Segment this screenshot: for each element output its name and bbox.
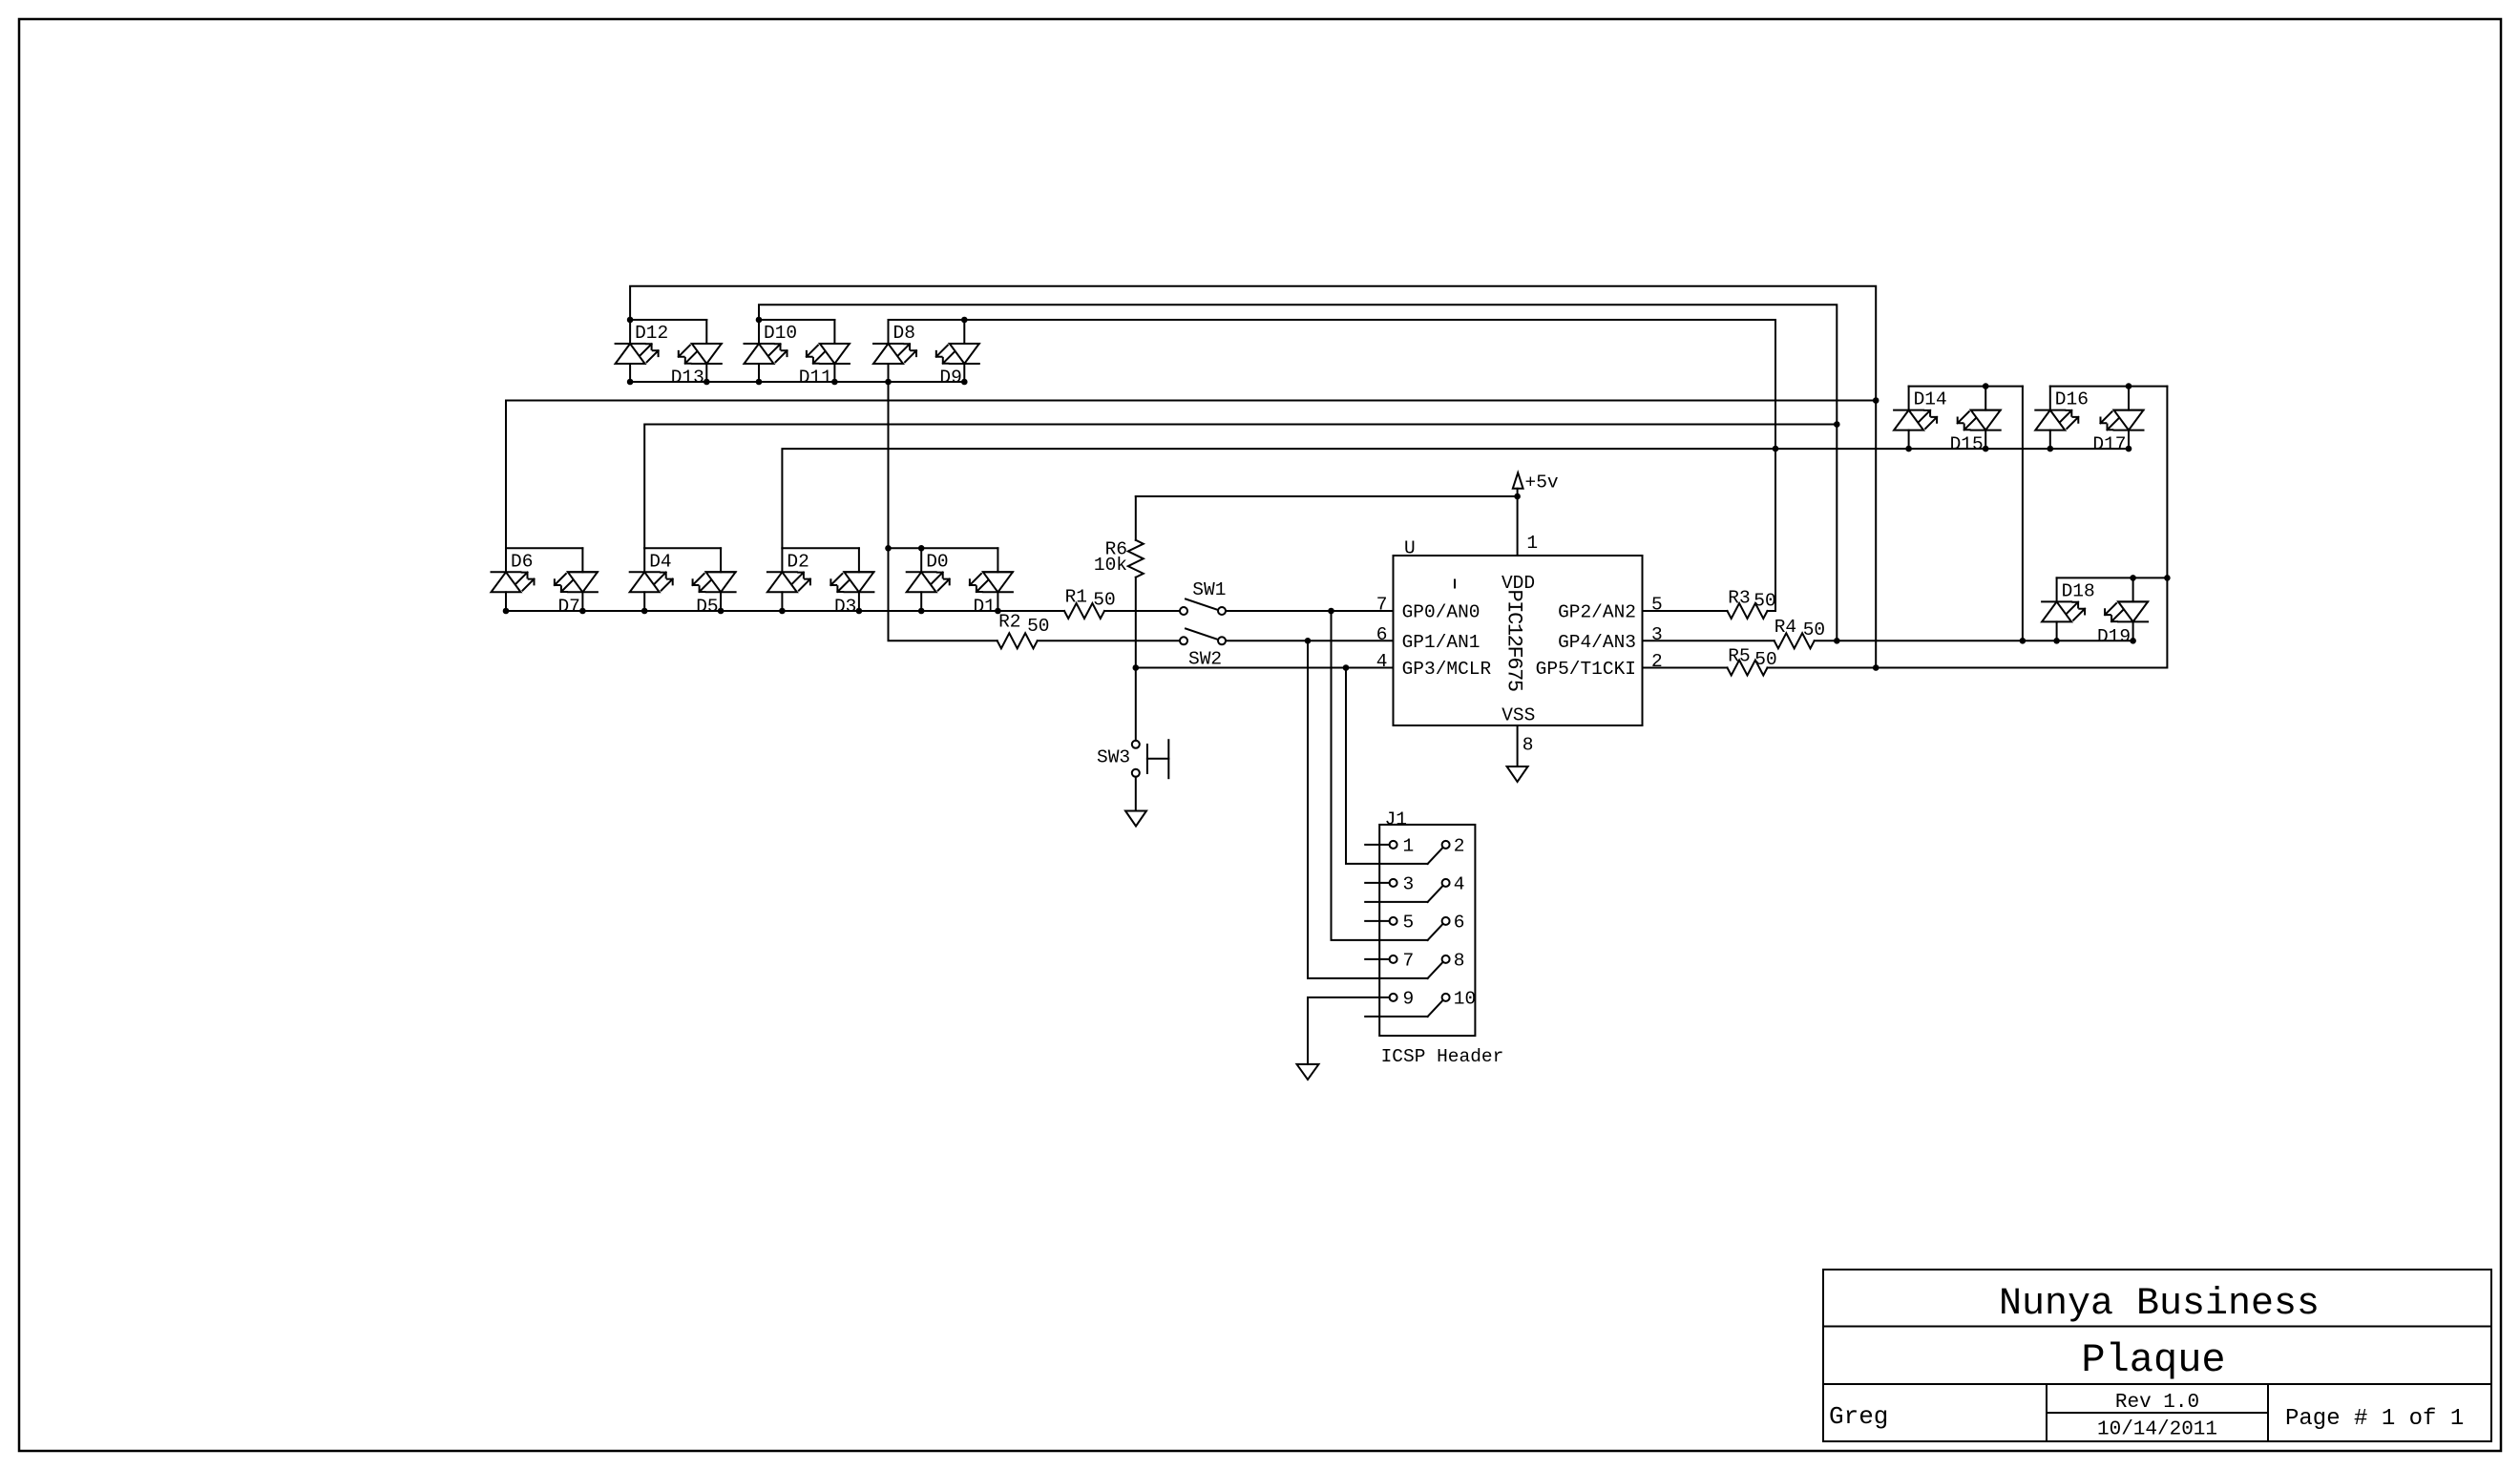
svg-text:GP0/AN0: GP0/AN0: [1402, 602, 1480, 623]
wire VSS pin 8 to ground: [1517, 725, 1519, 766]
ground (ICSP pin 9): [1297, 1064, 1319, 1080]
svg-text:SW3: SW3: [1097, 747, 1130, 768]
svg-text:D4: D4: [649, 551, 671, 572]
svg-text:J1: J1: [1385, 809, 1407, 830]
svg-text:U: U: [1404, 538, 1416, 559]
svg-text:4: 4: [1454, 873, 1465, 894]
wire ICSP pin 4 stub: [1365, 901, 1427, 903]
svg-text:50: 50: [1803, 619, 1825, 640]
resistor R2 50: [997, 611, 1050, 648]
svg-text:1: 1: [1403, 835, 1415, 856]
LED D12: [616, 320, 669, 382]
wire R3 lead from chip pin 5: [1643, 610, 1728, 612]
LED D19: [2097, 577, 2148, 646]
svg-text:D9: D9: [939, 367, 961, 388]
connector J1 ICSP Header: [1379, 809, 1503, 1068]
resistor R1 50: [1064, 586, 1116, 619]
wire GP4 net: D4 top riser and horizontal: [644, 425, 1837, 549]
svg-text:D5: D5: [696, 597, 718, 618]
LED D3: [830, 548, 873, 617]
svg-text:9: 9: [1403, 988, 1415, 1009]
svg-text:5: 5: [1651, 595, 1663, 616]
svg-text:D13: D13: [671, 367, 704, 388]
svg-text:10k: 10k: [1094, 555, 1127, 576]
svg-text:D10: D10: [764, 323, 797, 344]
LED D17: [2092, 387, 2143, 455]
svg-text:GP3/MCLR: GP3/MCLR: [1402, 659, 1492, 680]
J1 pin 8: [1428, 950, 1465, 978]
LED D5: [693, 548, 736, 617]
svg-text:GP5/T1CKI: GP5/T1CKI: [1536, 659, 1636, 680]
svg-text:50: 50: [1093, 590, 1115, 611]
power +5v symbol: [1513, 472, 1559, 493]
svg-text:D17: D17: [2092, 434, 2126, 455]
svg-text:VSS: VSS: [1501, 705, 1535, 726]
svg-text:Plaque: Plaque: [2081, 1337, 2225, 1383]
svg-text:2: 2: [1651, 651, 1663, 672]
svg-text:Nunya Business: Nunya Business: [1999, 1283, 2320, 1326]
LED D6: [492, 548, 535, 611]
wire GP5 net: D6 top riser and horizontal to right vertical: [506, 401, 1876, 549]
svg-text:50: 50: [1753, 591, 1775, 612]
svg-text:D7: D7: [557, 597, 579, 618]
J1 pin 10: [1428, 988, 1477, 1017]
wire GP3 net: row to chip pin 4: [1136, 667, 1394, 669]
J1 pin 3: [1390, 873, 1415, 894]
svg-text:Page # 1 of 1: Page # 1 of 1: [2285, 1406, 2464, 1432]
LED D2: [767, 548, 810, 611]
svg-text:ICSP Header: ICSP Header: [1381, 1046, 1504, 1067]
wire GP4 net: D14/D15 top rail: [1909, 386, 2023, 388]
wire GP4 net: D10 top riser, wire, vertical to R4 row: [759, 304, 1837, 640]
svg-text:4: 4: [1376, 651, 1388, 672]
wire GP0 net: R1 to SW1 left contact: [1104, 610, 1180, 612]
wire GP1 net: R2 to SW2 left contact: [1038, 640, 1180, 641]
svg-text:GP1/AN1: GP1/AN1: [1402, 632, 1480, 653]
svg-text:R4: R4: [1774, 617, 1796, 638]
wire GP0 net: branch down to ICSP pin 6: [1332, 611, 1428, 940]
J1 pin 2: [1428, 835, 1465, 864]
LED D15: [1950, 387, 2001, 455]
svg-text:2: 2: [1454, 835, 1465, 856]
wire GP1 net: SW2 right contact to chip pin 6: [1226, 640, 1394, 641]
svg-text:7: 7: [1376, 595, 1388, 616]
svg-text:Rev 1.0: Rev 1.0: [2115, 1392, 2199, 1414]
svg-text:7: 7: [1403, 950, 1415, 971]
resistor R4 50: [1774, 617, 1825, 648]
J1 pin 9: [1390, 988, 1415, 1009]
svg-text:R5: R5: [1728, 645, 1750, 666]
LED D9: [936, 320, 979, 388]
wire GP5 net: R5 row from resistor to corner, up right side: [1768, 387, 2168, 668]
LED D13: [671, 320, 722, 388]
switch SW1: [1180, 579, 1226, 615]
svg-text:D1: D1: [973, 597, 995, 618]
wire GP3 net: branch down to ICSP pin 2: [1346, 668, 1428, 864]
wire ICSP pin 3 stub: [1365, 882, 1389, 884]
svg-text:5: 5: [1403, 912, 1415, 933]
LED D18: [2042, 577, 2095, 640]
svg-text:6: 6: [1454, 912, 1465, 933]
junction dots: [503, 317, 2171, 671]
wire D6/D7 pair top rail: [506, 547, 582, 549]
title block: [1823, 1270, 2491, 1441]
svg-text:+5v: +5v: [1525, 472, 1559, 493]
svg-text:D16: D16: [2055, 389, 2089, 410]
svg-text:10/14/2011: 10/14/2011: [2097, 1419, 2217, 1441]
wire GP1 net: long vertical from D8 bottom down to R2 row: [889, 382, 997, 640]
wire ICSP pin 10 stub: [1365, 1016, 1427, 1018]
LED D8: [873, 320, 916, 382]
wire GP2 net: D8/D9 top rail and wire to vertical above R3: [889, 320, 1776, 611]
svg-text:R3: R3: [1728, 588, 1750, 609]
wire R6 bottom to GP3 row and SW3: [1135, 577, 1137, 741]
wire SW3 bottom contact to ground: [1135, 777, 1137, 811]
LED D7: [555, 548, 598, 617]
wire GP4 net: R4 row out to D18/D19 bottoms: [1815, 640, 2133, 641]
wire GP5 net: D12 top riser, top bus wire, right vertical to R5 row: [630, 286, 1876, 668]
svg-text:D11: D11: [799, 367, 832, 388]
wire D10/D11 pair top rail: [759, 319, 834, 321]
LED D1: [970, 548, 1013, 617]
wire R6 top lead from +5v rail: [1135, 496, 1137, 540]
wire R3 right lead to vertical: [1768, 610, 1776, 612]
wire ICSP pin 1 stub: [1365, 844, 1389, 846]
svg-text:8: 8: [1454, 950, 1465, 971]
svg-text:50: 50: [1754, 649, 1776, 670]
svg-text:3: 3: [1403, 873, 1415, 894]
ground (VSS): [1507, 766, 1528, 782]
wire GP0 net: SW1 right contact to chip pin 7: [1226, 610, 1394, 612]
wire R5 lead from chip pin 2: [1643, 667, 1728, 669]
svg-text:D6: D6: [511, 551, 533, 572]
svg-text:D15: D15: [1950, 434, 1984, 455]
J1 pin 4: [1428, 873, 1465, 902]
resistor R6 10k: [1094, 538, 1144, 577]
svg-text:3: 3: [1651, 624, 1663, 645]
wire GP1 net: branch down to ICSP pin 8: [1308, 640, 1428, 978]
svg-text:R2: R2: [998, 611, 1020, 632]
svg-text:PIC12F675: PIC12F675: [1502, 590, 1526, 691]
LED D14: [1894, 387, 1947, 450]
svg-text:D14: D14: [1914, 389, 1947, 410]
wire D4/D5 pair top rail: [644, 547, 721, 549]
wire GP5 net: D16/D17 top rail: [2050, 386, 2168, 388]
svg-text:R1: R1: [1065, 586, 1087, 607]
LED D11: [799, 320, 850, 388]
wire +5v rail to VDD: [1136, 495, 1518, 497]
wire ICSP pin 9 to ground: [1308, 997, 1390, 1064]
LED D10: [745, 320, 798, 382]
svg-text:6: 6: [1376, 624, 1388, 645]
resistor R5 50: [1728, 645, 1777, 675]
wire GP2 net: D2 top riser and long bus to D14-D17 bottoms: [782, 449, 2129, 548]
J1 pin 7: [1390, 950, 1415, 971]
wire GP5 net: D18/D19 top rail: [2057, 577, 2168, 578]
svg-text:50: 50: [1027, 616, 1049, 637]
J1 pin 5: [1390, 912, 1415, 933]
wire GP0 net: bottom LED row bus to R1: [506, 610, 1064, 612]
svg-text:D12: D12: [635, 323, 668, 344]
switch SW2: [1180, 629, 1226, 670]
switch SW3 (pushbutton): [1097, 740, 1168, 778]
svg-text:1: 1: [1526, 533, 1538, 554]
svg-text:10: 10: [1454, 988, 1476, 1009]
svg-text:D2: D2: [787, 551, 808, 572]
wire R4 lead from chip pin 3: [1643, 640, 1774, 641]
svg-text:SW1: SW1: [1192, 579, 1226, 600]
LED D0: [907, 548, 950, 611]
LED D4: [630, 548, 673, 611]
svg-text:8: 8: [1522, 735, 1534, 756]
resistor R3 50: [1728, 588, 1776, 619]
J1 pin 1: [1390, 835, 1415, 856]
wire ICSP pin 7 stub: [1365, 958, 1389, 960]
svg-text:D19: D19: [2097, 626, 2131, 647]
wire GP1 net: top row bottom bus: [630, 381, 964, 383]
wire ICSP pin 5 stub: [1365, 920, 1389, 922]
wire D2/D3 pair top rail: [782, 547, 859, 549]
svg-text:GP4/AN3: GP4/AN3: [1558, 632, 1636, 653]
wire GP4 net: vertical from R4 row up to D14/D15 rail: [2022, 387, 2024, 641]
svg-text:D8: D8: [893, 323, 915, 344]
J1 pin 6: [1428, 912, 1465, 940]
svg-text:D3: D3: [834, 597, 856, 618]
IC U PIC12F675: [1394, 538, 1643, 726]
ground (SW3): [1125, 811, 1146, 827]
wire GP1 net: D0/D1 top rail: [889, 547, 998, 549]
svg-text:Greg: Greg: [1829, 1402, 1888, 1431]
wire D12/D13 pair top rail: [630, 319, 706, 321]
wire VDD pin 1: [1517, 489, 1519, 556]
svg-text:SW2: SW2: [1188, 648, 1222, 669]
svg-text:D18: D18: [2062, 580, 2095, 601]
svg-text:D0: D0: [926, 551, 948, 572]
LED D16: [2035, 387, 2089, 450]
svg-text:GP2/AN2: GP2/AN2: [1558, 602, 1636, 623]
